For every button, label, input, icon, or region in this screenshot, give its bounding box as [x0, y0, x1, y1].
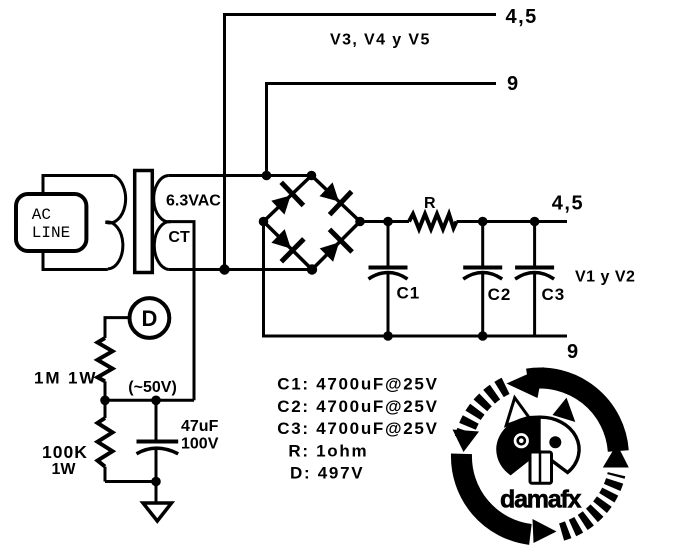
svg-text:6.3VAC: 6.3VAC — [166, 193, 221, 210]
svg-text:V3, V4 y V5: V3, V4 y V5 — [330, 32, 431, 49]
svg-text:AC: AC — [32, 206, 51, 224]
svg-text:C3: C3 — [542, 285, 566, 304]
svg-text:1W: 1W — [52, 461, 77, 478]
svg-text:4,5: 4,5 — [506, 6, 538, 28]
svg-text:V1 y V2: V1 y V2 — [575, 269, 635, 286]
svg-text:C2: C2 — [488, 285, 512, 304]
svg-text:C3: 4700uF@25V: C3: 4700uF@25V — [277, 419, 438, 438]
svg-text:C1: 4700uF@25V: C1: 4700uF@25V — [277, 375, 438, 394]
svg-text:damafx: damafx — [500, 486, 582, 514]
svg-text:C2: 4700uF@25V: C2: 4700uF@25V — [277, 397, 438, 416]
svg-text:4,5: 4,5 — [552, 193, 584, 215]
svg-text:R: R — [424, 195, 436, 212]
svg-text:100V: 100V — [181, 436, 219, 453]
svg-text:1M 1W: 1M 1W — [34, 369, 97, 388]
svg-text:(~50V): (~50V) — [128, 379, 176, 396]
svg-text:D: 497V: D: 497V — [290, 464, 364, 483]
svg-text:CT: CT — [168, 229, 190, 246]
svg-text:R: 1ohm: R: 1ohm — [288, 441, 368, 460]
svg-text:C1: C1 — [397, 283, 421, 302]
svg-text:100K: 100K — [42, 442, 88, 462]
svg-text:9: 9 — [567, 341, 578, 363]
svg-text:D: D — [142, 306, 158, 331]
svg-text:9: 9 — [507, 73, 518, 95]
svg-text:47uF: 47uF — [181, 418, 219, 435]
svg-text:LINE: LINE — [32, 224, 70, 242]
